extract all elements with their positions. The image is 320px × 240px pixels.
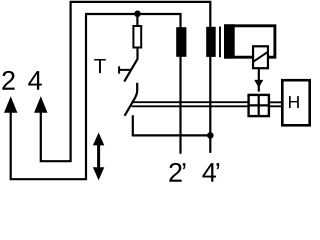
transformer primary winding bar L1 [176, 27, 186, 57]
wire: L1 down to terminal 2' [179, 56, 181, 154]
junction node A on inner top wire [134, 11, 141, 18]
contact blade K (crosses linkage) [125, 83, 138, 116]
motion double-headed arrow shaft [97, 142, 100, 171]
wire: terminal 4 up-arrow, run, riser, outer top run to L2 [41, 2, 211, 161]
mechanical linkage double line (left section) [132, 102, 248, 106]
label T [94, 59, 106, 73]
switch T actuator [119, 66, 130, 73]
secondary frame box [226, 26, 275, 57]
wire: L2 down to terminal 4' [209, 57, 211, 153]
junction node B [207, 132, 214, 139]
wire: fixed contact down to node B [133, 115, 211, 135]
sensor box with diagonal [253, 46, 268, 68]
terminal label 2 [2, 71, 14, 90]
wire: terminal 2 up-arrow, bottom run, left riser, top inner run to L1 [11, 14, 181, 179]
transformer primary winding bar L2 [206, 27, 216, 57]
resistor R [133, 26, 141, 48]
terminal label 4' [202, 163, 219, 182]
wire: node A to resistor [136, 14, 138, 26]
motion arrow top head [93, 133, 104, 146]
drive cross lines [249, 95, 269, 116]
drive cross box [249, 95, 269, 116]
wire: resistor to switch T [136, 48, 138, 60]
indicator box H [282, 80, 309, 125]
mechanical linkage double line (right section) [270, 102, 282, 106]
switch T blade [124, 59, 137, 82]
transformer core line [219, 27, 221, 58]
terminal 4 arrowhead [34, 96, 47, 113]
transformer secondary winding bar [224, 24, 235, 58]
actuation arrow shaft [258, 69, 260, 92]
motion arrow bottom head [93, 167, 104, 180]
terminal label 4 [28, 71, 42, 90]
sensor diagonal [254, 52, 268, 61]
actuation arrowhead [254, 80, 263, 88]
terminal label 2' [169, 163, 185, 182]
terminal 2 arrowhead [4, 96, 17, 113]
label H [289, 96, 299, 108]
